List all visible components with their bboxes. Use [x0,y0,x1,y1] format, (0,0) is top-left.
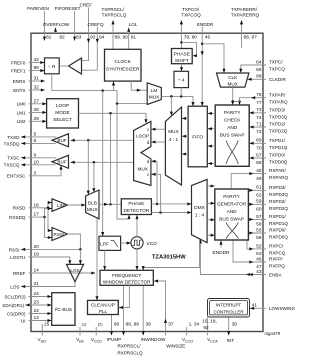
pin 41 LOWSWING (input, right) into interrupt controller [250,302,295,311]
wire branch down into MUX 4:1 [170,96,173,115]
MUX 4:1 block (trapezoid) [165,107,181,185]
wire parity check to FIFO bit1 [208,127,216,130]
figure reference mgu479 [264,331,280,336]
svg-text:24: 24 [34,291,40,297]
svg-text:43: 43 [256,269,262,275]
svg-text:ENTX: ENTX [13,88,25,93]
junction retimed data to MUX d [156,203,159,206]
pin 19 LOSTH (input, left) to LOS comparator [10,252,71,265]
svg-text:I²C-BUS: I²C-BUS [55,307,72,312]
svg-text:58: 58 [256,222,262,228]
pin 38 INWINDOW (output, bottom) from frequency window detector [141,285,166,342]
svg-text:31: 31 [34,76,40,82]
svg-text:TXPD1Q: TXPD1Q [269,145,288,150]
svg-text:86, 87: 86, 87 [244,34,258,40]
device name TZA3015HW [152,254,186,260]
pins 86,87 TXPARERR/TXPARERRQ (output, top) [231,7,260,48]
svg-text:96: 96 [114,322,120,328]
svg-text:LIM: LIM [57,203,65,208]
wire LPF down to frequency window detector [103,250,106,270]
pin 25 VDD (bottom power) [38,322,50,344]
wire LM MUX output to FIFO [161,96,194,106]
wire DLB MUX recovered clock down to clean-up PLL [95,219,98,301]
pin 81 PAREVEN (input, top) [27,6,51,41]
pins 1,34 VCCO (bottom power) [182,322,199,344]
svg-text:LM2: LM2 [17,119,26,124]
svg-text:64: 64 [256,59,262,65]
svg-text:22: 22 [34,308,40,314]
svg-text:CS(DR0): CS(DR0) [7,311,26,316]
pin 24 SCL(DR2) (input, left) to I2C block [4,291,51,299]
svg-text:RXPD0Q: RXPD0Q [269,235,288,240]
svg-text:LM1: LM1 [17,110,26,115]
LOOP serializer and MUX block (notched trapezoid) [134,121,151,185]
svg-text:88: 88 [256,74,262,80]
svg-text:MUX: MUX [137,167,148,172]
svg-text:ENDDR: ENDDR [197,22,214,27]
svg-text:92: 92 [203,325,209,331]
svg-text:DETECTOR: DETECTOR [123,208,149,213]
svg-text:TXPD1/: TXPD1/ [269,138,286,143]
svg-text:79, 80: 79, 80 [184,34,198,40]
pin 82 OVERFLOW (output, top) [43,22,70,40]
wire phase detector recovered clock to DMX [151,211,191,214]
wire parity check to FIFO bit0 [208,112,216,115]
svg-text:93: 93 [90,34,96,40]
svg-text:(2): (2) [98,322,104,327]
svg-text:25: 25 [44,322,50,328]
pin 32 ENTX (input, left) [13,85,45,93]
parity check and bus swap block [215,105,249,166]
svg-text:23: 23 [34,300,40,306]
svg-text:42: 42 [34,57,40,63]
svg-text:56: 56 [256,235,262,241]
pin 23 SDA(DR1) (bidirectional, left) to I2C block [2,300,51,308]
svg-text:INWINDOW: INWINDOW [141,337,166,342]
svg-text:76: 76 [256,92,262,98]
pins 71,72 TXPD2/TXPD2Q (input, right) [249,121,287,135]
pin 17 RXSDQ (input, left) to LIM amp [9,207,52,220]
junction reference net to phase detector column [116,102,119,105]
svg-text:RXPARQ: RXPARQ [269,175,288,180]
svg-text:74: 74 [256,115,262,121]
junction LM MUX output to MUX 4:1 [170,95,173,98]
pin (2) VCCD (bottom power) [91,322,103,344]
svg-text:MUX: MUX [149,94,160,99]
svg-text:45: 45 [205,34,211,40]
LPF block with lowpass symbol [99,236,121,250]
pin 31 ENRX (input, left) [13,76,45,84]
svg-text:INT: INT [227,338,235,343]
wire DMX bit3 to parity generator [207,234,215,237]
svg-text:RSSI: RSSI [54,232,65,237]
svg-text:DMX: DMX [194,205,205,211]
svg-text:1, 34: 1, 34 [189,322,200,328]
svg-text:TXPD2/: TXPD2/ [269,122,286,127]
pin 95 FREF1 (input, left) [11,65,45,73]
pins 61,62 RXPD3/RXPD3Q (output, right) [248,185,288,199]
svg-text:3: 3 [34,170,37,176]
wire LOOP serializer data to TXSD buffer [71,139,134,142]
svg-text:PHASE: PHASE [174,51,190,57]
pin 93 CREF (input, top) wire to reference amp [80,3,96,61]
wire DMX bit0 to parity generator [207,184,215,187]
svg-text:98, 99: 98, 99 [126,322,140,328]
svg-text:TXPCQ: TXPCQ [269,67,285,72]
divider block (divide by R) [45,58,60,74]
interrupt controller block (double border) [208,299,250,318]
svg-text:UI: UI [21,318,26,323]
svg-text:61: 61 [256,185,262,191]
pin label d (LOOP lower input) [147,140,150,145]
svg-text:67: 67 [256,152,262,158]
svg-text:WINSIZE: WINSIZE [166,343,185,348]
svg-text:TXSCQ: TXSCQ [4,163,20,168]
pin 21 LOS (output, left) from LOS comparator [10,281,75,289]
svg-text:PARITY: PARITY [224,110,241,115]
wire reference net continues to LM MUX lower input [114,91,147,104]
pin 10 TXSCQ (output, left) [4,159,56,167]
svg-text:FIFORESET: FIFORESET [55,6,81,11]
svg-text:81: 81 [46,34,52,40]
svg-text:14: 14 [34,268,40,274]
pin 3 ENTXSC (input, left) into TXSC buffer enable [7,165,63,178]
svg-text:AND: AND [227,125,238,130]
svg-text:LM: LM [151,88,158,93]
LM MUX block (trapezoid) [147,83,161,105]
pin 22 CS(DR0) (input, left) to I2C block [7,308,52,316]
RSSI amplifier (triangle) [52,228,68,241]
pin 9 TXSC (output, left) [7,152,56,160]
svg-text:CLEAN-UP: CLEAN-UP [91,303,115,308]
wire clock synthesizer output to LM MUX [131,81,147,92]
wire MUX 4:1 output to LOOP d [151,140,165,143]
clock synthesizer block [105,49,142,81]
svg-text:59: 59 [256,199,262,205]
svg-text:CLKDIR: CLKDIR [269,77,287,82]
svg-text:RXSDQ: RXSDQ [9,215,26,220]
pin 28 LM1 (input, left) [17,107,47,115]
svg-text:5: 5 [34,131,37,137]
wire LIM output to DLB MUX [68,203,86,206]
svg-text:TXPD0Q: TXPD0Q [269,160,288,165]
wire CLK MUX output down to parity check [231,87,239,105]
pin label d (MUX upper input) [147,159,150,164]
svg-text:WINDOW DETECTOR: WINDOW DETECTOR [103,280,151,285]
svg-text:89, 90: 89, 90 [115,34,129,40]
wire RXSD branch to RSSI amp [48,208,52,232]
svg-text:19: 19 [34,252,40,258]
wire loop mode select output to LOOP serializer [79,113,148,123]
pin 83 FIFORESET (input, top) [55,6,82,41]
phase shift block [172,49,193,65]
svg-text:FIFO: FIFO [192,135,203,141]
wire RSSI branch into LOS comparator [79,249,82,264]
pin 29 LM2 (input, left) [17,116,47,124]
junction TXPCO line [180,41,183,44]
svg-text:94: 94 [99,34,105,40]
wire reference column down to phase detector [117,104,131,219]
bus swap crossover symbol (parity generator) [226,223,238,239]
wire phase detector retimed data to DMX [151,202,191,205]
svg-text:TXPCO/: TXPCO/ [182,7,200,12]
svg-text:91: 91 [131,34,137,40]
wire FIFO to MUX 4:1 bit1 [182,135,188,138]
limiting amplifier LIM (triangle) [52,199,68,212]
wire RSSI amp output to RSSI pin and LOS detector [68,234,81,249]
pins 52,53 RXPC/RXPCQ (output, right) [247,240,286,257]
svg-text:TXSC: TXSC [7,156,20,161]
wire DMX bit1 to parity generator [207,202,215,205]
svg-text:DLB: DLB [88,200,97,206]
svg-text:BUS SWAP: BUS SWAP [219,216,244,221]
junction loop mode select to DLB MUX select [109,112,112,206]
junction RXSD split to RSSI amp [47,207,50,210]
pins 64,65 TXPC/TXPCQ (top right) wire into CLK MUX [239,59,285,73]
svg-text:RXPD3Q: RXPD3Q [269,192,288,197]
svg-text:37: 37 [168,322,174,328]
svg-text:95: 95 [34,65,40,71]
svg-text:GENERATOR: GENERATOR [217,201,247,206]
pins 15,18,92 VCCA (bottom power) [202,317,218,343]
svg-text:68: 68 [256,160,262,166]
svg-text:82: 82 [59,34,65,40]
svg-text:TXPRSCL/: TXPRSCL/ [101,7,124,12]
IC boundary (TZA3015HW outer box) [31,33,263,331]
svg-text:(1): (1) [82,322,88,327]
svg-text:÷ R: ÷ R [48,64,56,70]
svg-text:TXPC/: TXPC/ [269,60,283,65]
junction divide-by-4 output [180,95,183,98]
svg-text:ENDDR: ENDDR [212,250,230,256]
junction ENDDR branch [201,43,204,46]
svg-text:PHASE: PHASE [128,201,144,206]
svg-text:RXPD3/: RXPD3/ [269,185,286,190]
svg-text:RXPD2Q: RXPD2Q [269,206,288,211]
svg-text:TXSDQ: TXSDQ [4,141,20,146]
pins 73,74 TXPD3/TXPD3Q (input, right) [249,107,287,121]
FIFO block [188,106,207,167]
svg-text:FREQUENCY: FREQUENCY [112,273,142,278]
svg-text:PARITY: PARITY [223,194,240,199]
wire parity check to FIFO bit3 [208,162,216,165]
svg-text:ENRX: ENRX [13,79,26,84]
svg-text:SHIFT: SHIFT [175,58,189,64]
svg-text:TXPD0/: TXPD0/ [269,153,286,158]
wire DMX clock down to frequency window detector [142,240,200,271]
pins 48,49 RXPAR/RXPARQ (output, right) from parity generator [231,168,288,189]
pin label c (MUX lower input) [147,172,150,177]
pin (1) VEE (bottom power) [76,322,87,344]
svg-text:65: 65 [256,67,262,73]
svg-text:16: 16 [34,202,40,208]
svg-text:SDA(DR1): SDA(DR1) [2,303,24,308]
svg-text:BUF: BUF [57,138,66,143]
svg-text:TZA3015HW: TZA3015HW [152,254,186,260]
svg-text:52: 52 [256,243,262,249]
svg-text:RXPAR/: RXPAR/ [269,168,286,173]
pins 59,60 RXPD2/RXPD2Q (output, right) [248,199,288,213]
pin 88 CLKDIR (input, right) into CLK MUX select [248,74,287,83]
svg-text:TXPARQ: TXPARQ [269,99,288,104]
svg-text:TXPD2Q: TXPD2Q [269,129,288,134]
svg-text:83: 83 [76,34,82,40]
pin 14 RREF (input, left) [13,268,96,276]
pins 46,47 RXFP/RXFPQ (output, right) [233,240,285,270]
svg-text:TXPD3Q: TXPD3Q [269,114,288,119]
svg-text:55: 55 [256,227,262,233]
svg-text:15, 18,: 15, 18, [202,319,217,325]
pins 55,56 RXPD0/RXPD0Q (output, right) [248,227,288,241]
svg-text:CONTROLLER: CONTROLLER [213,309,243,314]
loop mode select block [47,99,79,128]
wire RXSDQ branch to RSSI amp [45,217,53,239]
pins 69,70 TXPD1/TXPD1Q (input, right) [249,138,287,152]
svg-text:LM0: LM0 [17,102,26,107]
svg-text:32: 32 [34,85,40,91]
svg-text:RXPRSCL/: RXPRSCL/ [118,344,142,349]
svg-text:OVERFLOW: OVERFLOW [43,22,70,27]
wire phase shift to divide-by-4 [180,64,183,72]
svg-text:69: 69 [256,138,262,144]
parity generator and bus swap block [215,189,249,240]
svg-text:73: 73 [256,107,262,113]
svg-text:6: 6 [34,138,37,144]
junction TX clock loopback [93,161,96,164]
svg-text:SCL(DR2): SCL(DR2) [4,294,26,299]
svg-text:÷ 4: ÷ 4 [178,78,185,84]
svg-text:1 : 4: 1 : 4 [195,212,205,218]
svg-text:77: 77 [256,100,262,106]
pin 30 INT (output, bottom) from interrupt controller [227,317,238,343]
wire DLB MUX output to phase detector [99,203,121,206]
junction CLK MUX output [231,100,234,103]
wire recovered clock up to MUX c input [151,173,160,213]
svg-text:RXPRSCLQ: RXPRSCLQ [117,351,143,356]
wire FIFO to MUX 4:1 bit0 [182,117,188,120]
svg-text:FREF1: FREF1 [11,69,26,74]
junction reference net to LPF column [101,89,104,92]
svg-text:TXPD3/: TXPD3/ [269,107,286,112]
svg-text:BUF: BUF [57,160,66,165]
pin 42 FREF0 (input, left) [11,57,45,65]
LOS comparator (triangle pointing down) [66,264,83,281]
buffer BUF TXSD (triangle output driver) [52,134,69,147]
svg-text:70: 70 [256,146,262,152]
svg-text:INTERRUPT: INTERRUPT [216,303,241,308]
wire divider output to clock synthesizer and reference net [52,74,115,91]
svg-text:RXPD1Q: RXPD1Q [269,221,288,226]
svg-text:RXSD: RXSD [13,206,26,211]
svg-text:TXPARERRQ: TXPARERRQ [231,13,260,18]
svg-text:PLL: PLL [99,309,108,314]
wire FIFO to MUX 4:1 bit2 [182,152,188,155]
divide-by-4 block [174,71,189,87]
pin 45 ENDDR (input, top) wire down to FIFO [197,22,214,106]
wire DMX bit2 to parity generator [207,218,215,221]
svg-text:VCO: VCO [147,241,158,247]
svg-text:CHECK: CHECK [224,117,241,122]
VCO circle with squarewave symbol [131,237,157,249]
I2C-BUS block [52,293,75,326]
pin 43 ENBA (input, right) wire to DMX [199,239,283,277]
svg-text:13: 13 [34,315,40,321]
svg-text:60: 60 [256,207,262,213]
svg-text:TXSD: TXSD [7,135,20,140]
junction RSSI output node [79,248,82,251]
wire LPF column input (from reference net) [101,91,104,237]
pins 98,99 RXPRSCL/RXPRSCLQ (output, bottom) [117,285,143,355]
phase detector block [121,199,151,215]
wire reference amp output to divider [59,65,68,67]
wire serializer clock to TXSC buffer [71,161,134,164]
svg-text:MUX: MUX [87,207,98,213]
pin 6 TXSDQ (output, left) [4,138,56,146]
pins 79,80 TXPCO/TXPCOQ (output, top) [180,7,201,49]
buffer BUF TXSC (triangle output driver) [52,155,69,168]
svg-text:46: 46 [256,256,262,262]
svg-text:LOL: LOL [129,22,138,27]
wire VCO feedback up to phase detector [135,215,138,237]
svg-text:17: 17 [34,212,40,218]
pin 16 RXSD (input, left) to LIM amp [13,201,52,211]
pin 27 LM0 (input, left) [17,98,47,106]
wire MUX 4:1 output to LOOP c [151,128,165,131]
wire TX clock loopback down into DLB MUX [92,162,95,192]
clean-up PLL block [88,300,119,314]
pins 76,77 TXPAR/TXPARQ (input, right) into parity check [238,92,288,106]
pins 89,90 TXPRSCL/TXPRSCLQ (output, top) [101,7,128,49]
svg-text:LPF: LPF [100,242,109,248]
wire TXPCO loopback into phase shifter right side [181,42,196,57]
svg-text:LOS: LOS [70,268,79,273]
svg-text:21: 21 [34,281,40,287]
svg-text:MODE: MODE [55,110,69,116]
svg-text:27: 27 [34,98,40,104]
svg-text:48: 48 [256,168,262,174]
svg-text:53: 53 [256,251,262,257]
svg-text:CLK: CLK [228,75,238,80]
svg-text:BUS SWAP: BUS SWAP [220,132,245,137]
svg-text:TXPAR/: TXPAR/ [269,92,286,97]
svg-text:28: 28 [34,107,40,113]
svg-text:LOOP: LOOP [136,134,149,139]
wire TX data loopback down into DLB MUX [87,140,90,195]
svg-text:62: 62 [256,193,262,199]
svg-text:RXPC/: RXPC/ [269,244,284,249]
svg-text:MUX: MUX [168,129,179,134]
svg-text:LOSTH: LOSTH [10,255,25,260]
svg-text:CREFQ: CREFQ [87,22,104,27]
pins 57,58 RXPD1/RXPD1Q (output, right) [248,214,288,228]
svg-text:RREF: RREF [13,271,26,276]
wire ENDDR branch to CLK MUX [202,44,225,73]
svg-text:RXPCQ: RXPCQ [269,251,286,256]
svg-text:20: 20 [34,244,40,250]
pin 96 IPUMP (output, bottom) from clean-up PLL [107,315,122,343]
pin 13 UI (input, left) to I2C block [21,315,52,323]
wire parity check to FIFO bit2 [208,145,216,148]
pins 67,68 TXPD0/TXPD0Q (input, right) [249,152,287,166]
svg-text:71: 71 [256,121,262,127]
svg-text:AND: AND [227,209,238,214]
svg-text:38: 38 [146,322,152,328]
svg-text:CLOCK: CLOCK [114,59,131,65]
svg-text:LOWSWING: LOWSWING [269,306,295,311]
junction recovered clock to MUX c [159,211,162,214]
DLB MUX block (trapezoid) [86,190,99,219]
svg-text:30: 30 [232,322,238,328]
